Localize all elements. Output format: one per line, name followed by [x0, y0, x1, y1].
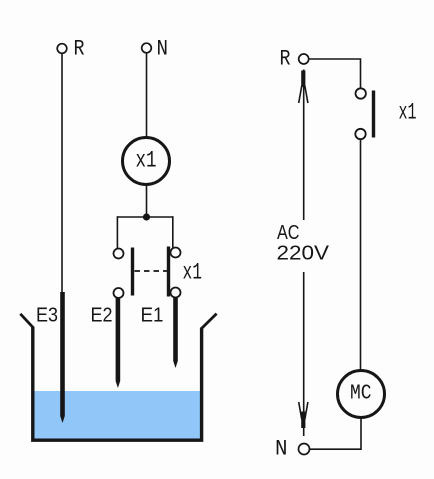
wire contact to MC — [360, 139, 362, 370]
up arrow — [299, 71, 308, 104]
svg-text:E1: E1 — [141, 305, 164, 327]
svg-text:N: N — [157, 37, 169, 62]
AC source line upper — [303, 70, 305, 221]
svg-text:x1: x1 — [399, 100, 417, 126]
contact x1 left: top terminal — [114, 249, 124, 259]
coil MC — [338, 371, 385, 418]
terminal N — [142, 43, 152, 53]
contact x1 right: bottom terminal — [171, 288, 181, 298]
wire rail horizontal — [117, 216, 172, 218]
wire x1 to junction — [146, 185, 148, 218]
terminal R right — [299, 54, 309, 64]
contact x1 right circuit: bottom terminal — [355, 129, 365, 139]
tank left lip — [20, 314, 33, 327]
terminal R — [57, 44, 67, 54]
svg-text:E3: E3 — [36, 305, 58, 327]
contact x1 right: top terminal — [171, 248, 181, 258]
relay coil x1 — [123, 138, 170, 185]
linkage dashed line — [135, 270, 168, 272]
svg-text:E2: E2 — [91, 305, 113, 327]
electrode E3 — [60, 292, 65, 416]
wire left drop — [116, 216, 118, 248]
down arrow — [299, 402, 308, 428]
electrode E2 — [116, 298, 121, 381]
node junction — [143, 213, 150, 220]
water — [34, 391, 200, 439]
label AC 220V — [273, 221, 331, 271]
svg-text:MC: MC — [350, 382, 372, 406]
svg-text:N: N — [275, 437, 288, 462]
svg-text:x1: x1 — [183, 260, 203, 286]
wire right drop — [172, 216, 174, 247]
contact x1 right circuit: top terminal — [356, 88, 366, 98]
electrode E1 — [173, 297, 178, 361]
svg-text:R: R — [74, 37, 85, 62]
contact x1 left: bottom terminal — [114, 288, 124, 298]
tank walls and bottom — [33, 327, 202, 441]
wire R to contact — [309, 59, 361, 88]
svg-text:220V: 220V — [277, 242, 330, 265]
svg-text:R: R — [280, 47, 291, 72]
svg-text:x1: x1 — [136, 148, 157, 174]
terminal N right — [299, 444, 310, 455]
tank right lip — [202, 314, 217, 329]
wire R down to electrode E3 — [61, 53, 63, 293]
wire N down to coil x1 — [146, 53, 148, 137]
contact x1 left: bar — [131, 248, 134, 296]
wire MC to N — [310, 418, 361, 450]
AC source line lower — [303, 272, 305, 436]
contact x1 right: bar — [167, 247, 170, 297]
contact x1 right circuit: bar — [372, 91, 375, 138]
